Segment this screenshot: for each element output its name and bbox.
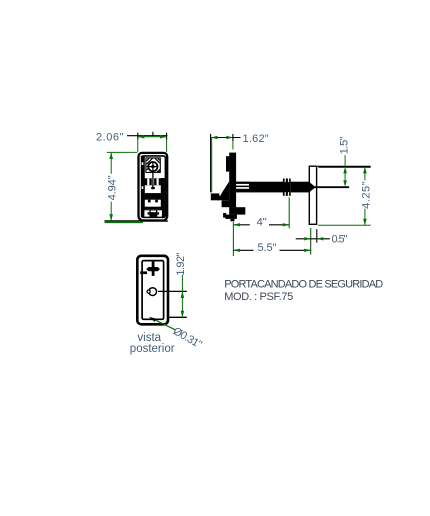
front view keyhole box: [146, 158, 160, 173]
svg-text:0.5": 0.5": [332, 234, 348, 246]
rear view hole: [147, 288, 157, 296]
rear view keyhole slot: [140, 262, 160, 276]
shaft continuation: [291, 182, 310, 193]
dimension 1.5: [318, 136, 371, 187]
front view two squares: [148, 200, 158, 203]
front view center tab: [151, 187, 155, 189]
dimension 4.94: [105, 152, 168, 222]
shaft body: [249, 182, 283, 193]
front view plate outline: [139, 153, 168, 220]
title text: [224, 278, 383, 303]
dimension 1.62: [211, 133, 269, 193]
dimension 4: [233, 197, 289, 256]
shaft center extension line: [311, 186, 349, 188]
svg-text:4.25": 4.25": [360, 181, 372, 209]
side view flange profile: [211, 153, 246, 222]
front view center line: [152, 172, 154, 186]
svg-text:1.62": 1.62": [243, 133, 269, 145]
front view bottom white line: [142, 218, 165, 219]
svg-text:MOD. : PSF.75: MOD. : PSF.75: [224, 291, 293, 303]
front view bottom slot: [143, 210, 165, 217]
dimension 4.25: [318, 167, 372, 225]
dimension 2.06: [96, 131, 167, 152]
svg-text:4.94": 4.94": [106, 175, 118, 200]
svg-text:PORTACANDADO DE SEGURIDAD: PORTACANDADO DE SEGURIDAD: [224, 278, 383, 290]
svg-text:4": 4": [257, 216, 267, 228]
shaft nut: [283, 179, 291, 196]
leader diameter 0.31: [149, 317, 204, 351]
label vista posterior: [130, 332, 175, 355]
front view right strip: [161, 178, 165, 217]
svg-text:1.92": 1.92": [175, 253, 187, 276]
front view middle band: [143, 193, 165, 200]
svg-text:5.5": 5.5": [258, 242, 277, 254]
svg-text:Ø0.31": Ø0.31": [171, 325, 204, 351]
front view lower band: [143, 207, 165, 210]
svg-text:posterior: posterior: [130, 343, 175, 355]
svg-text:2.06": 2.06": [96, 131, 124, 143]
shaft tip: [306, 183, 316, 192]
dimension 1.92: [158, 253, 187, 318]
front view left strip: [141, 156, 145, 218]
wall plate: [309, 166, 316, 224]
rear view plate outline: [137, 256, 168, 324]
shaft threads: [236, 182, 249, 193]
front view lock circle: [148, 161, 158, 172]
dimension 5.5: [233, 228, 310, 255]
front view grille: [145, 178, 162, 187]
dimension 0.5: [296, 229, 348, 245]
svg-text:1.5": 1.5": [339, 136, 351, 154]
